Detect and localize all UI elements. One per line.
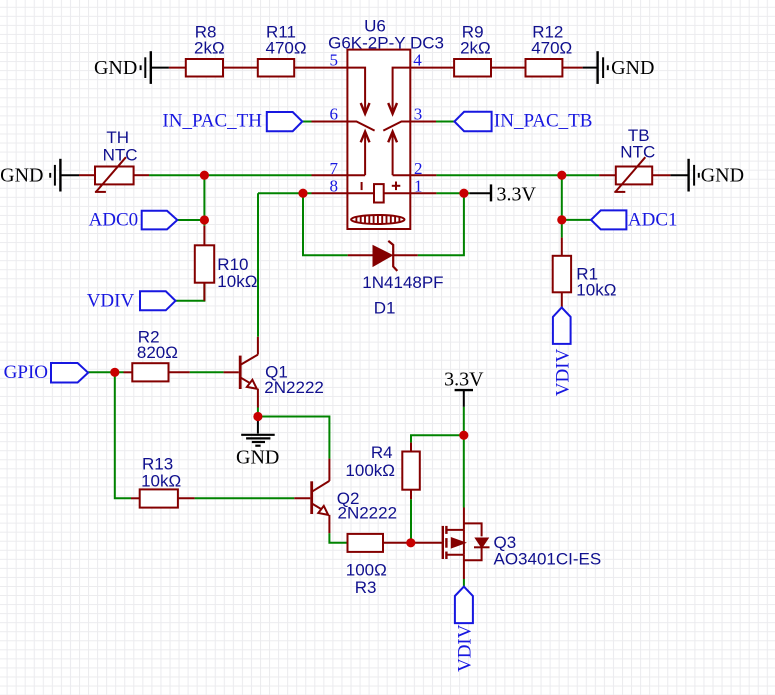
svg-text:2N2222: 2N2222 <box>338 504 398 523</box>
svg-text:GND: GND <box>94 57 137 79</box>
svg-text:GND: GND <box>611 57 654 79</box>
svg-text:8: 8 <box>330 177 339 196</box>
svg-text:3: 3 <box>414 105 423 124</box>
svg-text:820Ω: 820Ω <box>137 343 178 362</box>
svg-text:ADC1: ADC1 <box>628 210 678 231</box>
svg-text:NTC: NTC <box>620 143 655 162</box>
svg-text:R4: R4 <box>371 443 393 462</box>
svg-text:GPIO: GPIO <box>4 362 48 383</box>
svg-text:100Ω: 100Ω <box>346 560 387 579</box>
svg-text:GND: GND <box>701 164 744 186</box>
svg-text:470Ω: 470Ω <box>531 39 572 58</box>
svg-text:2kΩ: 2kΩ <box>194 39 225 58</box>
svg-text:GND: GND <box>0 164 43 186</box>
svg-text:TH: TH <box>106 128 129 147</box>
svg-text:10kΩ: 10kΩ <box>576 280 616 299</box>
svg-text:470Ω: 470Ω <box>266 39 307 58</box>
svg-text:3.3V: 3.3V <box>497 184 537 206</box>
svg-text:10kΩ: 10kΩ <box>141 472 181 491</box>
svg-text:AO3401CI-ES: AO3401CI-ES <box>494 550 602 569</box>
svg-text:VDIV: VDIV <box>552 348 573 396</box>
svg-text:R3: R3 <box>355 578 377 597</box>
svg-text:2: 2 <box>414 159 423 178</box>
svg-text:5: 5 <box>330 50 339 69</box>
svg-text:ADC0: ADC0 <box>89 210 139 231</box>
svg-text:2N2222: 2N2222 <box>264 378 324 397</box>
svg-text:VDIV: VDIV <box>454 624 475 672</box>
svg-text:10kΩ: 10kΩ <box>217 272 257 291</box>
svg-text:2kΩ: 2kΩ <box>460 39 491 58</box>
svg-text:1: 1 <box>414 177 423 196</box>
svg-text:G6K-2P-Y DC3: G6K-2P-Y DC3 <box>328 34 444 53</box>
svg-text:R13: R13 <box>142 454 173 473</box>
svg-text:7: 7 <box>330 159 339 178</box>
svg-text:1N4148PF: 1N4148PF <box>362 273 443 292</box>
svg-text:6: 6 <box>330 105 339 124</box>
svg-text:100kΩ: 100kΩ <box>345 461 395 480</box>
svg-text:GND: GND <box>236 447 279 469</box>
svg-text:D1: D1 <box>374 298 396 317</box>
svg-text:IN_PAC_TB: IN_PAC_TB <box>494 111 593 132</box>
svg-text:NTC: NTC <box>103 145 138 164</box>
svg-text:3.3V: 3.3V <box>444 369 484 391</box>
svg-text:IN_PAC_TH: IN_PAC_TH <box>162 111 262 132</box>
svg-text:4: 4 <box>413 50 422 69</box>
svg-text:VDIV: VDIV <box>87 290 135 311</box>
